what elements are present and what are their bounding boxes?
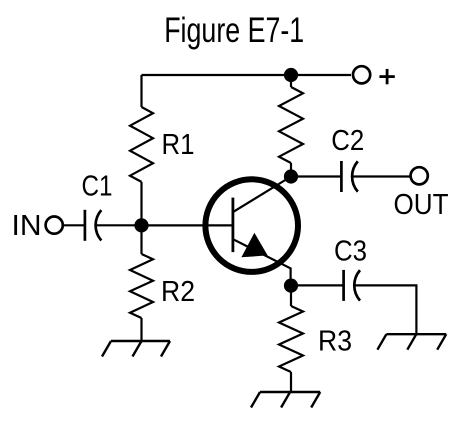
- wire collector resistor top lead: [290, 75, 292, 87]
- node emitter junction: [284, 279, 298, 293]
- wire R3 bottom lead to ground: [290, 372, 292, 392]
- supply + terminal circle: [353, 66, 370, 83]
- svg-text:C1: C1: [82, 171, 113, 203]
- wire C2 to OUT terminal: [352, 175, 410, 177]
- node base junction: [134, 218, 148, 232]
- transistor Q1 emitter line: [233, 239, 291, 285]
- wire collector node to C2: [291, 175, 341, 177]
- svg-text:R3: R3: [318, 325, 352, 357]
- svg-text:C3: C3: [334, 235, 367, 267]
- resistor R1: [130, 107, 153, 182]
- svg-text:OUT: OUT: [394, 189, 449, 221]
- wire C3 to right ground drop: [355, 285, 417, 334]
- wire R2 bottom lead to ground: [140, 318, 142, 341]
- wire collector resistor bottom lead: [290, 163, 292, 177]
- node collector junction: [284, 169, 298, 183]
- svg-text:C2: C2: [331, 125, 364, 157]
- resistor R2: [130, 254, 153, 318]
- resistor R3: [279, 306, 303, 372]
- capacitor C3: [344, 270, 360, 301]
- svg-text:Figure E7-1: Figure E7-1: [164, 10, 304, 50]
- supply + sign: [379, 69, 394, 84]
- wire R1 bottom to node and to R2 top: [140, 182, 142, 254]
- wire left branch upper lead to R1: [140, 75, 142, 107]
- transistor Q1 base bar: [231, 198, 234, 253]
- wire emitter node to R3: [290, 286, 292, 306]
- wire top supply rail: [142, 74, 352, 76]
- transistor Q1 emitter arrow: [241, 233, 267, 258]
- OUT terminal circle: [411, 167, 428, 184]
- ground right of C3: [377, 334, 446, 350]
- wire C1 to base node: [96, 224, 142, 226]
- ground under R3: [251, 392, 320, 408]
- ground under R2: [102, 341, 170, 357]
- transistor Q1 circle: [205, 179, 298, 272]
- wire base node to transistor base: [142, 224, 233, 226]
- IN terminal circle: [46, 217, 63, 234]
- wire emitter node to C3: [291, 284, 344, 286]
- transistor Q1 collector line: [233, 177, 291, 213]
- svg-text:R2: R2: [161, 276, 195, 308]
- resistor (collector load): [279, 87, 303, 163]
- svg-text:R1: R1: [162, 129, 195, 161]
- svg-text:IN: IN: [12, 210, 42, 242]
- capacitor C2: [341, 161, 357, 192]
- capacitor C1: [85, 210, 101, 241]
- node supply junction: [284, 68, 298, 82]
- wire IN terminal to C1: [64, 224, 85, 226]
